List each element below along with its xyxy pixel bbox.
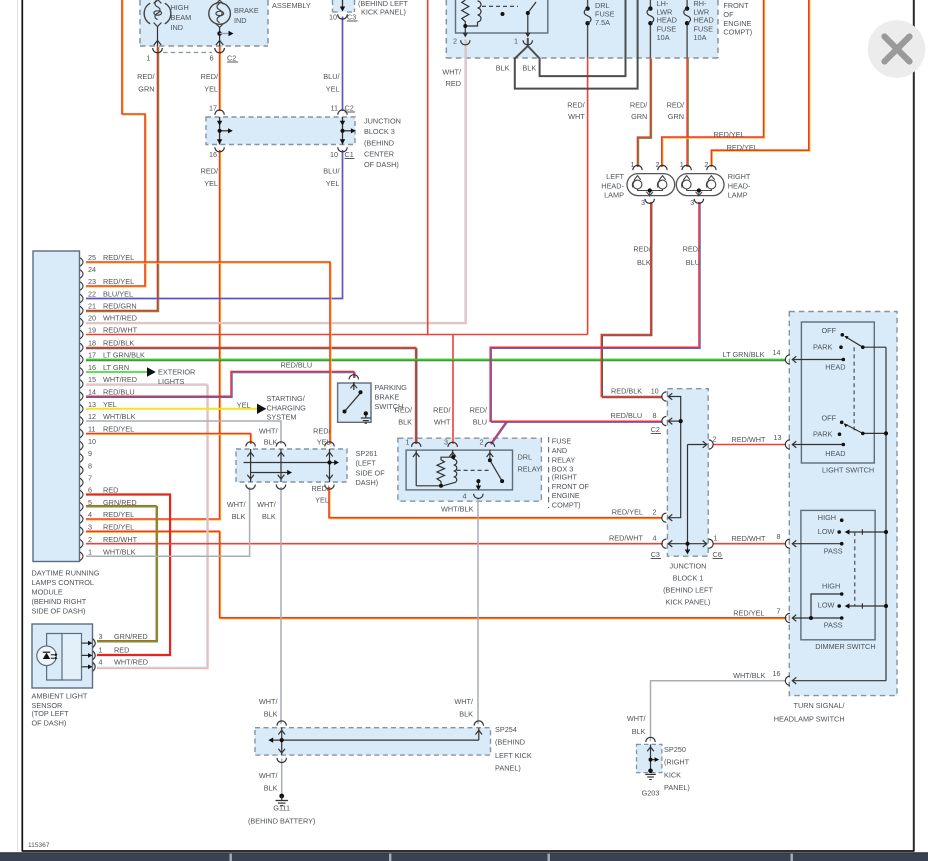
- svg-text:OFF: OFF: [822, 326, 837, 335]
- junction block 2 box (behind left kick panel, cut off at top): [333, 0, 355, 12]
- svg-text:RIGHT: RIGHT: [728, 172, 751, 181]
- svg-text:BLK: BLK: [496, 64, 510, 73]
- ambient light sensor internals: [47, 634, 62, 681]
- labels above SP254: [259, 697, 474, 719]
- headlamp bulbs left: [632, 176, 667, 196]
- junction block 1 pin arcs: [662, 392, 713, 548]
- svg-text:RED/YEL: RED/YEL: [612, 508, 643, 517]
- svg-text:HEAD: HEAD: [657, 16, 677, 25]
- label left headlamp: [601, 172, 624, 200]
- svg-text:G203: G203: [642, 789, 660, 798]
- svg-text:RED/: RED/: [470, 406, 488, 415]
- svg-text:HEAD-: HEAD-: [728, 181, 751, 190]
- svg-text:SYSTEM: SYSTEM: [267, 413, 297, 422]
- DRL relay internals: [412, 442, 503, 486]
- svg-text:WHT/: WHT/: [227, 500, 247, 509]
- svg-text:DIMMER SWITCH: DIMMER SWITCH: [815, 642, 875, 651]
- wire RED/WHT junction block 1 to dimmer switch pin 8: [713, 543, 787, 545]
- svg-text:RED/BLK: RED/BLK: [611, 386, 642, 395]
- svg-text:CHARGING: CHARGING: [267, 403, 307, 412]
- wire labels RED/GRN RED/YEL BLU/YEL top: [137, 72, 340, 94]
- svg-text:KICK: KICK: [664, 770, 681, 779]
- dimmer/headlamp switch pin arcs: [785, 539, 790, 685]
- wire RED/BLU module pin 14 to parking brake switch: [86, 372, 355, 398]
- svg-text:1: 1: [714, 534, 718, 543]
- headlamp stadium shells: [627, 174, 675, 196]
- svg-text:RELAY: RELAY: [552, 455, 576, 464]
- svg-text:YEL: YEL: [204, 179, 218, 188]
- wire RED/BLU right headlamp pin 3 to relay pin 2 and junction block 1 pin 8: [490, 202, 700, 445]
- footer bar: [0, 853, 928, 861]
- svg-text:RED/WHT: RED/WHT: [731, 534, 766, 543]
- wire WHT/BLK module pin 12 to SP261: [86, 421, 281, 444]
- svg-text:FRONT OF: FRONT OF: [552, 482, 590, 491]
- svg-text:RED/BLU: RED/BLU: [103, 388, 135, 397]
- svg-text:1: 1: [631, 160, 635, 169]
- top relay pin 2: [463, 33, 468, 38]
- junction block 3 internals: [220, 117, 352, 145]
- svg-text:WHT/BLK: WHT/BLK: [103, 548, 136, 557]
- svg-text:SP254: SP254: [495, 725, 517, 734]
- svg-text:LIGHTS: LIGHTS: [158, 377, 184, 386]
- svg-text:RED/YEL: RED/YEL: [103, 253, 134, 262]
- svg-text:BLK: BLK: [632, 727, 646, 736]
- brake ind junction dot and arrow: [217, 31, 222, 36]
- svg-text:RED/: RED/: [201, 72, 219, 81]
- svg-text:GRN/RED: GRN/RED: [103, 498, 137, 507]
- fuse and relay box (front of engine compt, cut off at top): [446, 0, 718, 58]
- wire WHT/RED module pin 15 to ambient light sensor pin 4: [86, 384, 208, 669]
- svg-text:SIDE OF: SIDE OF: [356, 468, 386, 477]
- headlamp pin arcs: [633, 165, 716, 203]
- svg-text:WHT/: WHT/: [259, 426, 279, 435]
- svg-text:COMPT): COMPT): [723, 28, 752, 37]
- svg-text:G111: G111: [273, 804, 290, 813]
- light switch internals: [792, 337, 886, 681]
- svg-text:BLU: BLU: [686, 258, 700, 267]
- svg-text:C6: C6: [713, 550, 722, 559]
- svg-text:RED/BLU: RED/BLU: [611, 411, 643, 420]
- SP254 box: [255, 728, 491, 755]
- svg-text:BLOCK 1: BLOCK 1: [673, 574, 704, 583]
- svg-text:1: 1: [406, 437, 410, 446]
- svg-text:24: 24: [88, 265, 96, 274]
- svg-text:OF DASH): OF DASH): [32, 719, 67, 728]
- svg-text:BLK: BLK: [262, 512, 276, 521]
- svg-text:WHT/: WHT/: [259, 697, 279, 706]
- light switch pin arcs: [785, 355, 790, 449]
- svg-text:LAMP: LAMP: [604, 191, 624, 200]
- turn signal / headlamp switch outer box: [789, 312, 897, 696]
- svg-text:3: 3: [641, 198, 645, 207]
- svg-text:RED/: RED/: [633, 245, 651, 254]
- SP261 box: [236, 449, 347, 482]
- svg-text:22: 22: [88, 290, 96, 299]
- wire WHT/BLK DRL relay pin 4 to SP254: [477, 498, 479, 725]
- svg-text:RED: RED: [446, 79, 461, 88]
- svg-text:WHT/: WHT/: [257, 500, 277, 509]
- svg-text:SP250: SP250: [664, 745, 686, 754]
- svg-text:(RIGHT: (RIGHT: [664, 758, 690, 767]
- svg-text:8: 8: [653, 411, 657, 420]
- parking brake switch ground: [361, 418, 371, 423]
- svg-text:BLU/YEL: BLU/YEL: [103, 290, 133, 299]
- svg-text:10A: 10A: [657, 33, 670, 42]
- module pin numbers and wire labels: [88, 253, 145, 556]
- svg-text:16: 16: [209, 150, 217, 159]
- svg-text:10: 10: [651, 386, 659, 395]
- svg-text:OF DASH): OF DASH): [364, 160, 399, 169]
- wire RED/YEL cluster pin6 to JB3 pin17: [220, 46, 221, 111]
- svg-text:8: 8: [88, 462, 92, 471]
- svg-text:RED/WHT: RED/WHT: [103, 535, 138, 544]
- svg-text:11: 11: [331, 104, 338, 113]
- lamp brake indicator: [209, 0, 231, 27]
- svg-text:TURN SIGNAL/: TURN SIGNAL/: [794, 701, 846, 710]
- svg-text:LAMPS CONTROL: LAMPS CONTROL: [32, 578, 94, 587]
- starting/charging arrow: [257, 404, 266, 414]
- svg-text:LT GRN/BLK: LT GRN/BLK: [723, 350, 765, 359]
- svg-text:C2: C2: [227, 54, 236, 63]
- svg-text:LEFT: LEFT: [606, 172, 624, 181]
- svg-text:SIDE OF DASH): SIDE OF DASH): [32, 607, 86, 616]
- svg-text:(BEHIND: (BEHIND: [364, 138, 394, 147]
- cluster internal wires and pins: [154, 27, 224, 46]
- svg-text:LAMP: LAMP: [728, 191, 748, 200]
- lamp high beam indicator: [144, 0, 171, 27]
- wire RED/GRN RH-LWR head fuse to right headlamp pin 1: [687, 25, 688, 167]
- wire RED/YEL JB3 pin16 to module pin 4: [86, 150, 221, 520]
- svg-text:ENGINE: ENGINE: [723, 19, 751, 28]
- svg-text:IND: IND: [234, 16, 247, 25]
- svg-text:RED/YEL: RED/YEL: [103, 510, 134, 519]
- svg-text:BLK: BLK: [637, 258, 651, 267]
- svg-text:2: 2: [480, 437, 484, 446]
- svg-text:C3: C3: [651, 550, 660, 559]
- svg-text:RED/: RED/: [313, 426, 331, 435]
- parking brake switch internals: [345, 375, 366, 418]
- close button: [868, 20, 926, 78]
- svg-text:WHT/: WHT/: [627, 714, 647, 723]
- wire WHT/RED relay pin2 to module pin 20: [86, 39, 466, 324]
- svg-text:HIGH: HIGH: [822, 581, 840, 590]
- svg-text:LT GRN/BLK: LT GRN/BLK: [103, 351, 145, 360]
- svg-text:11: 11: [88, 425, 95, 434]
- svg-text:RED/WHT: RED/WHT: [731, 435, 766, 444]
- junction block 1 box: [667, 389, 708, 557]
- photodiode symbol: [43, 652, 58, 659]
- svg-text:7: 7: [88, 474, 92, 483]
- labels above SP261: [259, 426, 332, 446]
- svg-text:6: 6: [88, 486, 92, 495]
- svg-text:AND: AND: [552, 446, 567, 455]
- svg-text:RELAY: RELAY: [518, 464, 542, 473]
- svg-text:FRONT: FRONT: [723, 1, 749, 10]
- svg-text:(TOP LEFT: (TOP LEFT: [32, 709, 70, 718]
- svg-text:18: 18: [88, 339, 96, 348]
- svg-text:JUNCTION: JUNCTION: [364, 116, 401, 125]
- wire labels below JB3: [201, 167, 341, 189]
- svg-text:DASH): DASH): [356, 478, 379, 487]
- svg-text:WHT/BLK: WHT/BLK: [103, 412, 136, 421]
- svg-text:YEL: YEL: [326, 85, 340, 94]
- ground G111: [276, 794, 288, 806]
- svg-text:BLK: BLK: [264, 710, 278, 719]
- svg-text:5: 5: [88, 498, 92, 507]
- wire dark feeds above fuses: [588, 0, 688, 58]
- svg-text:(LEFT: (LEFT: [356, 459, 377, 468]
- ground G203: [645, 769, 656, 780]
- svg-text:WHT: WHT: [568, 112, 585, 121]
- svg-text:1: 1: [514, 37, 518, 46]
- fuse RH-LWR head fuse 10A symbol: [684, 6, 691, 25]
- svg-text:10: 10: [329, 13, 337, 22]
- junction block 3 pin arcs: [215, 110, 347, 152]
- labels above DRL relay: [395, 406, 488, 427]
- svg-text:BRAKE: BRAKE: [234, 6, 259, 15]
- fuse and relay box 3 (DRL relay) dashed box: [398, 438, 542, 501]
- wire GRN/RED module pin 5 to ambient light sensor pin 3: [86, 506, 157, 642]
- svg-text:13: 13: [88, 400, 96, 409]
- svg-text:EXTERIOR: EXTERIOR: [158, 368, 195, 377]
- svg-text:RED/: RED/: [630, 101, 648, 110]
- wire LT GRN/BLK module pin 17 to light switch pin 14: [86, 360, 786, 361]
- svg-text:PANEL): PANEL): [495, 764, 521, 773]
- svg-text:(BEHIND: (BEHIND: [495, 738, 525, 747]
- SP250 box: [637, 744, 662, 772]
- svg-text:3: 3: [690, 198, 694, 207]
- svg-text:3: 3: [444, 437, 448, 446]
- svg-text:RED/: RED/: [201, 167, 219, 176]
- svg-text:YEL: YEL: [103, 400, 117, 409]
- svg-text:BLK: BLK: [398, 418, 412, 427]
- svg-text:GRN: GRN: [668, 112, 684, 121]
- svg-text:23: 23: [88, 277, 96, 286]
- wire RED/GRN cluster pin1 to module pin 21: [86, 46, 159, 312]
- svg-text:SP261: SP261: [356, 449, 378, 458]
- junction block 3 box: [206, 117, 355, 145]
- svg-text:LOW: LOW: [818, 527, 835, 536]
- svg-text:17: 17: [88, 351, 96, 360]
- wire YEL module pin 13 to starting/charging arrow: [86, 408, 257, 410]
- svg-text:21: 21: [88, 302, 96, 311]
- svg-text:MODULE: MODULE: [32, 588, 63, 597]
- svg-text:BLU/: BLU/: [323, 72, 340, 81]
- dimmer switch internals: [792, 529, 886, 684]
- svg-text:3: 3: [88, 523, 92, 532]
- svg-text:RED/WHT: RED/WHT: [609, 534, 644, 543]
- svg-text:25: 25: [88, 253, 96, 262]
- svg-text:15: 15: [88, 375, 96, 384]
- label junction block 1 caption: [663, 562, 713, 607]
- svg-text:ASSEMBLY: ASSEMBLY: [272, 1, 311, 10]
- svg-text:20: 20: [88, 314, 96, 323]
- svg-text:RED/YEL: RED/YEL: [103, 425, 134, 434]
- svg-text:WHT/: WHT/: [454, 697, 474, 706]
- svg-text:HEADLAMP SWITCH: HEADLAMP SWITCH: [774, 714, 845, 723]
- svg-text:YEL: YEL: [317, 437, 331, 446]
- svg-text:RED/: RED/: [683, 245, 701, 254]
- wire RED/YEL module pin 3 to dimmer switch pin 7: [86, 531, 787, 619]
- svg-text:7: 7: [777, 607, 781, 616]
- svg-text:17: 17: [209, 104, 217, 113]
- svg-text:BLK: BLK: [232, 512, 246, 521]
- svg-text:2: 2: [453, 37, 457, 46]
- svg-text:LIGHT SWITCH: LIGHT SWITCH: [822, 466, 874, 475]
- svg-text:HEAD-: HEAD-: [601, 181, 624, 190]
- svg-text:BRAKE: BRAKE: [375, 393, 400, 402]
- cluster pin connector arcs C2: [153, 48, 225, 53]
- svg-text:WHT/: WHT/: [259, 771, 279, 780]
- svg-text:WHT/BLK: WHT/BLK: [733, 671, 766, 680]
- svg-text:(BEHIND LEFT: (BEHIND LEFT: [663, 586, 713, 595]
- svg-text:RED/BLU: RED/BLU: [281, 361, 313, 370]
- svg-text:4: 4: [463, 492, 467, 501]
- labels below SP261: [227, 484, 330, 521]
- label fuse and relay box 3 caption: [548, 437, 550, 508]
- SP261 internals: [244, 449, 335, 482]
- svg-text:C1: C1: [345, 150, 354, 159]
- svg-text:PARKING: PARKING: [375, 383, 408, 392]
- wire RED/WHT module pin 19 / DRL fuse / relay pin 3: [86, 0, 588, 444]
- svg-text:RED/: RED/: [395, 406, 413, 415]
- svg-text:10A: 10A: [694, 33, 707, 42]
- svg-text:(BEHIND BATTERY): (BEHIND BATTERY): [248, 817, 315, 826]
- svg-text:GRN/RED: GRN/RED: [114, 632, 148, 641]
- fuse LH-LWR head fuse 10A symbol: [647, 6, 654, 25]
- svg-text:C2: C2: [345, 104, 354, 113]
- svg-text:RED/YEL: RED/YEL: [733, 609, 764, 618]
- svg-text:KICK PANEL): KICK PANEL): [361, 8, 406, 17]
- svg-text:BEAM: BEAM: [171, 13, 192, 22]
- svg-text:6: 6: [210, 54, 214, 63]
- svg-text:DRL: DRL: [518, 452, 533, 461]
- svg-text:GRN: GRN: [138, 85, 154, 94]
- svg-text:RED/YEL: RED/YEL: [103, 523, 134, 532]
- svg-text:WHT: WHT: [434, 418, 451, 427]
- svg-text:BLK: BLK: [522, 64, 536, 73]
- wire RED/BLK left headlamp pin 3 to junction block 1 pin 10: [601, 202, 662, 398]
- wire RED/WHT module pin 2 to junction block 1 pin 4: [86, 543, 663, 545]
- svg-text:2: 2: [713, 435, 717, 444]
- junction block 1 internals: [668, 393, 706, 550]
- top relay pin 1: [525, 33, 530, 38]
- svg-text:RED/BLK: RED/BLK: [103, 339, 134, 348]
- svg-text:14: 14: [773, 348, 781, 357]
- svg-text:PARK: PARK: [813, 430, 832, 439]
- fuse DRL 7.5A symbol: [584, 6, 591, 25]
- svg-text:ENGINE: ENGINE: [552, 491, 580, 500]
- svg-text:BLK: BLK: [459, 710, 473, 719]
- svg-text:LT GRN: LT GRN: [103, 363, 129, 372]
- svg-text:1: 1: [88, 548, 92, 557]
- svg-text:DAYTIME RUNNING: DAYTIME RUNNING: [32, 569, 100, 578]
- svg-text:WHT/: WHT/: [442, 68, 462, 77]
- svg-text:PARK: PARK: [813, 343, 832, 352]
- svg-text:HIGH: HIGH: [818, 513, 836, 522]
- ambient light sensor box: [32, 624, 93, 688]
- svg-text:16: 16: [773, 669, 781, 678]
- svg-text:PANEL): PANEL): [664, 783, 690, 792]
- svg-text:WHT/RED: WHT/RED: [103, 314, 137, 323]
- top relay internals (cut off): [462, 0, 536, 33]
- label turn signal / headlamp switch: [774, 701, 846, 723]
- svg-text:RED/WHT: RED/WHT: [103, 326, 138, 335]
- svg-text:8: 8: [777, 532, 781, 541]
- wire BLU/YEL JB3 pin10 to module pin 22: [86, 150, 343, 299]
- svg-text:(BEHIND RIGHT: (BEHIND RIGHT: [32, 597, 87, 606]
- svg-text:12: 12: [88, 412, 96, 421]
- svg-text:BLU/: BLU/: [323, 167, 340, 176]
- svg-text:19: 19: [88, 326, 96, 335]
- svg-text:CENTER: CENTER: [364, 149, 394, 158]
- svg-text:RED/YEL: RED/YEL: [727, 143, 758, 152]
- svg-text:HEAD: HEAD: [825, 363, 845, 372]
- svg-text:115367: 115367: [28, 842, 50, 849]
- svg-text:HIGH: HIGH: [171, 3, 189, 12]
- svg-text:RED/: RED/: [137, 72, 155, 81]
- svg-text:PASS: PASS: [824, 547, 843, 556]
- svg-text:2: 2: [88, 535, 92, 544]
- svg-text:1: 1: [680, 160, 684, 169]
- svg-text:YEL: YEL: [326, 179, 340, 188]
- svg-text:2: 2: [656, 160, 660, 169]
- svg-text:2: 2: [653, 508, 657, 517]
- headlamp bulbs right: [682, 176, 716, 196]
- label G111: [248, 804, 315, 826]
- svg-text:BLOCK 3: BLOCK 3: [364, 127, 395, 136]
- svg-text:KICK PANEL): KICK PANEL): [666, 598, 711, 607]
- wire RED/YEL module pin 25 to SP261: [86, 262, 331, 444]
- svg-text:COMPT): COMPT): [552, 500, 581, 509]
- svg-text:AMBIENT LIGHT: AMBIENT LIGHT: [32, 691, 88, 700]
- svg-text:(RIGHT: (RIGHT: [552, 472, 578, 481]
- svg-text:BLK: BLK: [264, 784, 278, 793]
- labels RED/BLK RED/BLU headlamp grounds: [633, 245, 701, 268]
- wire RED/YEL to right headlamp pin 2: [711, 0, 810, 167]
- headlamp switch pin wire labels: [723, 350, 766, 680]
- svg-text:4: 4: [653, 534, 657, 543]
- wire BLU/YEL junction block 2 pin10 to JB3 pin11: [342, 17, 344, 112]
- parking brake switch box: [338, 383, 371, 422]
- svg-text:3: 3: [99, 632, 103, 641]
- sensor pin arrows: [82, 639, 96, 671]
- svg-text:RED: RED: [103, 486, 118, 495]
- DRL relay (top, inside fuse and relay box) inner rect: [456, 0, 548, 33]
- svg-text:RED/: RED/: [567, 101, 585, 110]
- svg-text:RED: RED: [114, 646, 129, 655]
- svg-text:4: 4: [88, 510, 92, 519]
- svg-text:YEL: YEL: [315, 496, 329, 505]
- svg-text:13: 13: [774, 433, 782, 442]
- svg-text:C3: C3: [347, 13, 356, 22]
- wire LT GRN module pin 16 to exterior lights arrow: [86, 371, 147, 373]
- svg-text:LOW: LOW: [818, 601, 835, 610]
- wire RED/YEL module pin 11 to SP261: [86, 434, 252, 445]
- svg-text:RED/YEL: RED/YEL: [103, 277, 134, 286]
- svg-text:STARTING/: STARTING/: [267, 394, 306, 403]
- svg-text:RED/: RED/: [311, 484, 329, 493]
- svg-text:9: 9: [88, 449, 92, 458]
- wire WHT/BLK SP254 to ground G111: [281, 759, 283, 797]
- svg-text:RED/: RED/: [433, 406, 451, 415]
- svg-text:RED/: RED/: [667, 101, 685, 110]
- dimmer switch inner rect: [801, 510, 875, 639]
- instrument cluster assembly box (cut off at top): [140, 0, 268, 46]
- wire RED/YEL to left headlamp pin 2: [662, 0, 765, 167]
- svg-text:2: 2: [704, 160, 708, 169]
- light switch inner rect: [801, 322, 874, 463]
